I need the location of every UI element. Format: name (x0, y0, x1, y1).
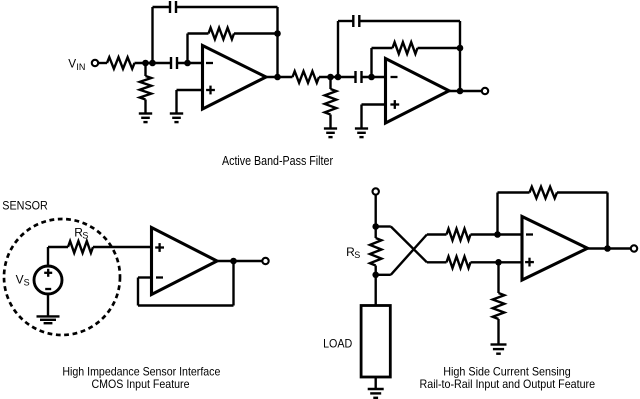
svg-text:IN: IN (76, 62, 85, 72)
svg-text:CMOS Input Feature: CMOS Input Feature (92, 377, 190, 391)
svg-text:V: V (16, 273, 24, 287)
svg-text:S: S (354, 250, 360, 260)
svg-text:LOAD: LOAD (323, 337, 352, 351)
svg-text:Rail-to-Rail Input and Output: Rail-to-Rail Input and Output Feature (420, 377, 596, 391)
svg-text:S: S (24, 278, 30, 288)
svg-text:SENSOR: SENSOR (2, 199, 48, 213)
svg-text:Active Band-Pass Filter: Active Band-Pass Filter (222, 153, 334, 168)
svg-text:V: V (68, 57, 76, 71)
svg-text:S: S (82, 231, 88, 241)
